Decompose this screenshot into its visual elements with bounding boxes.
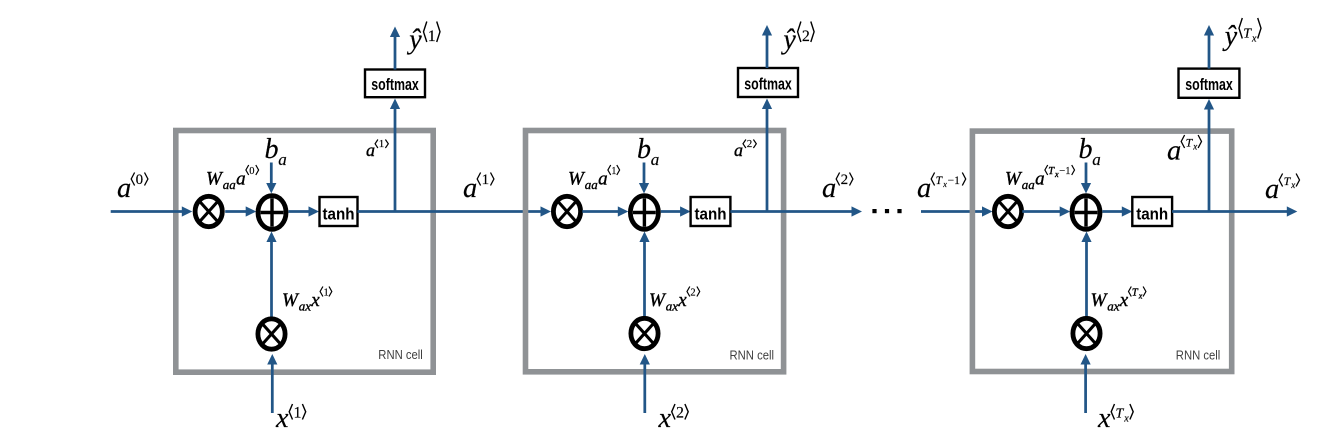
svg-text:b: b xyxy=(637,134,651,165)
svg-text:RNN cell: RNN cell xyxy=(730,347,775,362)
svg-text:W: W xyxy=(206,169,224,190)
svg-text:RNN cell: RNN cell xyxy=(1176,347,1221,362)
svg-text:x: x xyxy=(310,290,320,311)
svg-text:1: 1 xyxy=(428,28,436,45)
multiply node cell2 xyxy=(553,196,580,226)
svg-text:x: x xyxy=(1123,413,1129,424)
svg-text:T: T xyxy=(1116,407,1125,422)
svg-text:x: x xyxy=(677,290,687,311)
svg-text:1: 1 xyxy=(611,166,616,177)
svg-text:a: a xyxy=(117,173,131,204)
svg-text:aa: aa xyxy=(1022,177,1035,192)
svg-text:b: b xyxy=(1079,134,1093,165)
svg-text:x: x xyxy=(1251,33,1257,44)
svg-text:a: a xyxy=(734,140,743,160)
svg-text:2: 2 xyxy=(676,405,684,422)
wire: bottom multiply up to add node cell3 xyxy=(1085,241,1088,316)
svg-text:aa: aa xyxy=(223,177,237,192)
svg-text:a: a xyxy=(1035,169,1045,190)
svg-text:tanh: tanh xyxy=(695,205,727,224)
svg-text:ŷ: ŷ xyxy=(780,25,796,56)
svg-text:tanh: tanh xyxy=(1136,205,1168,224)
svg-text:aa: aa xyxy=(585,177,599,192)
wire: softmax to y-hat output cell1 xyxy=(394,36,397,70)
svg-text:x: x xyxy=(275,403,289,434)
svg-text:2: 2 xyxy=(802,28,810,45)
svg-text:W: W xyxy=(1005,169,1023,190)
svg-text:0: 0 xyxy=(136,172,144,188)
wire: multiply to add node cell1 xyxy=(225,210,247,213)
svg-text:2: 2 xyxy=(841,172,849,188)
wire: bias b_a arrow into add node cell2 xyxy=(643,163,646,185)
svg-text:−1: −1 xyxy=(1059,166,1070,177)
svg-text:0: 0 xyxy=(249,166,254,177)
wire: add node to tanh cell2 xyxy=(661,210,681,213)
wire: vertical branch up to softmax cell3 xyxy=(1208,109,1211,212)
wire: input x^(2) arrow into cell2 xyxy=(643,364,646,414)
svg-text:a: a xyxy=(1265,174,1279,205)
wire: softmax to y-hat output cell3 xyxy=(1208,35,1211,69)
svg-text:a: a xyxy=(917,173,931,204)
wire: multiply to add node cell3 xyxy=(1022,210,1060,213)
svg-text:a: a xyxy=(278,150,287,169)
ellipsis dots between cell2 and cell3 xyxy=(872,209,876,213)
wire: tanh output to a^(Tx) (horizontal out) xyxy=(1172,210,1288,213)
svg-text:1: 1 xyxy=(482,172,490,188)
tanh box cell1 xyxy=(320,197,358,226)
wire: vertical branch up to softmax cell1 xyxy=(394,108,397,212)
svg-text:a: a xyxy=(236,169,246,190)
svg-text:T: T xyxy=(1243,27,1252,42)
svg-text:x: x xyxy=(1192,142,1197,152)
svg-text:x: x xyxy=(1138,291,1143,300)
multiply node cell1 (W_aa * a) xyxy=(195,196,222,226)
svg-text:a: a xyxy=(651,150,660,169)
wire: add node to tanh cell1 xyxy=(289,210,310,213)
svg-text:a: a xyxy=(822,173,836,204)
wire: multiply to add node cell2 xyxy=(582,210,619,213)
svg-text:−1: −1 xyxy=(948,175,960,187)
svg-text:1: 1 xyxy=(379,138,385,150)
wire: tanh output toward dots (a^(2) horizontal) xyxy=(730,210,852,213)
multiply node cell2 bottom xyxy=(631,318,658,348)
svg-text:softmax: softmax xyxy=(371,75,419,94)
wire: vertical branch up to softmax cell2 xyxy=(766,108,769,212)
wire: add node to tanh cell3 xyxy=(1102,210,1122,213)
multiply node cell1 bottom (W_ax * x) xyxy=(258,319,285,349)
svg-text:x: x xyxy=(1097,403,1111,434)
svg-text:softmax: softmax xyxy=(1185,75,1233,94)
svg-text:a: a xyxy=(1092,150,1101,169)
multiply node cell3 xyxy=(994,196,1021,226)
svg-text:2: 2 xyxy=(747,138,753,150)
svg-text:b: b xyxy=(265,134,279,165)
wire: bottom multiply up to add node cell2 xyxy=(643,241,646,316)
multiply node cell3 bottom xyxy=(1073,318,1100,348)
RNN cell 1 frame xyxy=(176,131,433,373)
svg-text:x: x xyxy=(1290,180,1295,190)
wire: dots to cell3 multiply node xyxy=(921,210,983,213)
tanh box cell2 xyxy=(691,197,731,226)
svg-text:ax: ax xyxy=(299,299,312,314)
svg-text:a: a xyxy=(598,169,608,190)
wire: bias b_a arrow into add node cell1 xyxy=(270,163,273,185)
svg-text:x: x xyxy=(942,180,947,189)
svg-text:a: a xyxy=(463,173,477,204)
RNN cell 2 frame xyxy=(526,131,784,372)
wire: input x^(Tx) arrow into cell3 xyxy=(1084,364,1087,414)
svg-text:x: x xyxy=(1119,290,1129,311)
svg-text:W: W xyxy=(649,290,667,311)
svg-text:1: 1 xyxy=(324,288,329,299)
add node cell2 xyxy=(630,196,658,230)
svg-text:1: 1 xyxy=(294,405,302,422)
svg-text:a: a xyxy=(366,140,375,160)
svg-text:ŷ: ŷ xyxy=(1222,21,1238,52)
svg-text:W: W xyxy=(1091,290,1109,311)
svg-text:x: x xyxy=(658,403,672,434)
svg-text:x: x xyxy=(1054,170,1059,179)
wire: bias b_a arrow into add node cell3 xyxy=(1085,163,1088,185)
svg-text:ax: ax xyxy=(1107,299,1120,314)
wire: input x^(1) arrow into cell1 xyxy=(271,364,274,414)
softmax box cell3 xyxy=(1179,69,1240,98)
svg-text:tanh: tanh xyxy=(323,205,355,224)
add node cell3 xyxy=(1072,196,1100,230)
wire: tanh output to cell 2 (a^(1) horizontal) xyxy=(358,210,542,213)
svg-text:a: a xyxy=(1167,136,1181,167)
svg-text:W: W xyxy=(282,290,300,311)
RNN cell 3 frame xyxy=(972,131,1231,371)
wire: bottom multiply up to add node cell1 xyxy=(270,241,273,317)
svg-text:ax: ax xyxy=(666,299,679,314)
svg-text:W: W xyxy=(568,169,586,190)
tanh box cell3 xyxy=(1132,197,1172,226)
svg-text:softmax: softmax xyxy=(744,74,792,93)
softmax box cell2 xyxy=(738,68,798,97)
softmax box cell1 xyxy=(365,70,425,98)
add node cell1 xyxy=(258,196,286,230)
svg-text:2: 2 xyxy=(690,288,695,299)
wire: input a&lt;0&gt; arrow into cell 1 multiply node xyxy=(111,210,183,213)
svg-text:RNN cell: RNN cell xyxy=(378,347,423,362)
wire: softmax to y-hat output cell2 xyxy=(766,35,769,69)
svg-text:ŷ: ŷ xyxy=(406,25,422,56)
